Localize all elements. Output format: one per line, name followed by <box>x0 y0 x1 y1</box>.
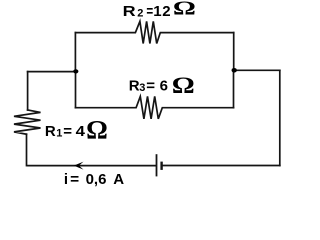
svg-text:A: A <box>113 171 124 188</box>
svg-text:=: = <box>70 171 79 188</box>
svg-text:4: 4 <box>76 123 86 140</box>
label R1 value <box>45 115 108 145</box>
label R2 value <box>123 0 196 20</box>
current direction arrow <box>74 162 84 170</box>
node A junction dot <box>73 69 78 73</box>
resistor R2 (zigzag, top branch) with wire <box>75 21 233 43</box>
wire: bottom left segment to battery <box>28 165 156 167</box>
svg-text:R: R <box>45 123 56 140</box>
svg-text:Ω: Ω <box>172 73 195 99</box>
svg-text:1: 1 <box>56 128 62 140</box>
battery B1 long plate (positive) <box>156 154 158 176</box>
label R3 value <box>129 73 195 99</box>
wire: right outer vertical <box>279 70 281 165</box>
node B junction dot <box>232 68 237 73</box>
svg-text:=: = <box>146 77 155 94</box>
wire: left outer bottom segment <box>26 134 28 165</box>
svg-text:1: 1 <box>153 3 161 20</box>
svg-text:R: R <box>123 3 136 20</box>
wire: R2 branch right vertical <box>233 33 235 71</box>
svg-text:2: 2 <box>137 7 143 19</box>
svg-text:3: 3 <box>139 82 145 94</box>
label current i = 0,6 A <box>64 171 124 188</box>
svg-text:=: = <box>63 123 72 140</box>
battery B1 short plate (negative) <box>160 162 162 170</box>
svg-text:6: 6 <box>160 77 168 94</box>
wire: R3 branch left vertical <box>75 71 77 107</box>
svg-text:i: i <box>64 171 68 188</box>
resistor R3 (zigzag, middle branch) with wire <box>76 96 234 119</box>
svg-text:Ω: Ω <box>173 0 196 20</box>
svg-text:R: R <box>129 77 140 94</box>
wire: bottom right segment from battery <box>162 165 279 167</box>
wire: left horizontal to node A <box>28 71 76 73</box>
wire: left outer top segment <box>27 72 29 110</box>
svg-text:2: 2 <box>162 3 170 20</box>
svg-text:0,6: 0,6 <box>86 171 107 188</box>
wire: R2 branch left vertical <box>74 33 76 72</box>
wire: node B horizontal to right wire <box>234 69 280 71</box>
svg-text:Ω: Ω <box>86 115 108 145</box>
resistor R1 (vertical zigzag, left wire) <box>14 110 41 134</box>
wire: R3 branch right vertical <box>233 70 235 107</box>
